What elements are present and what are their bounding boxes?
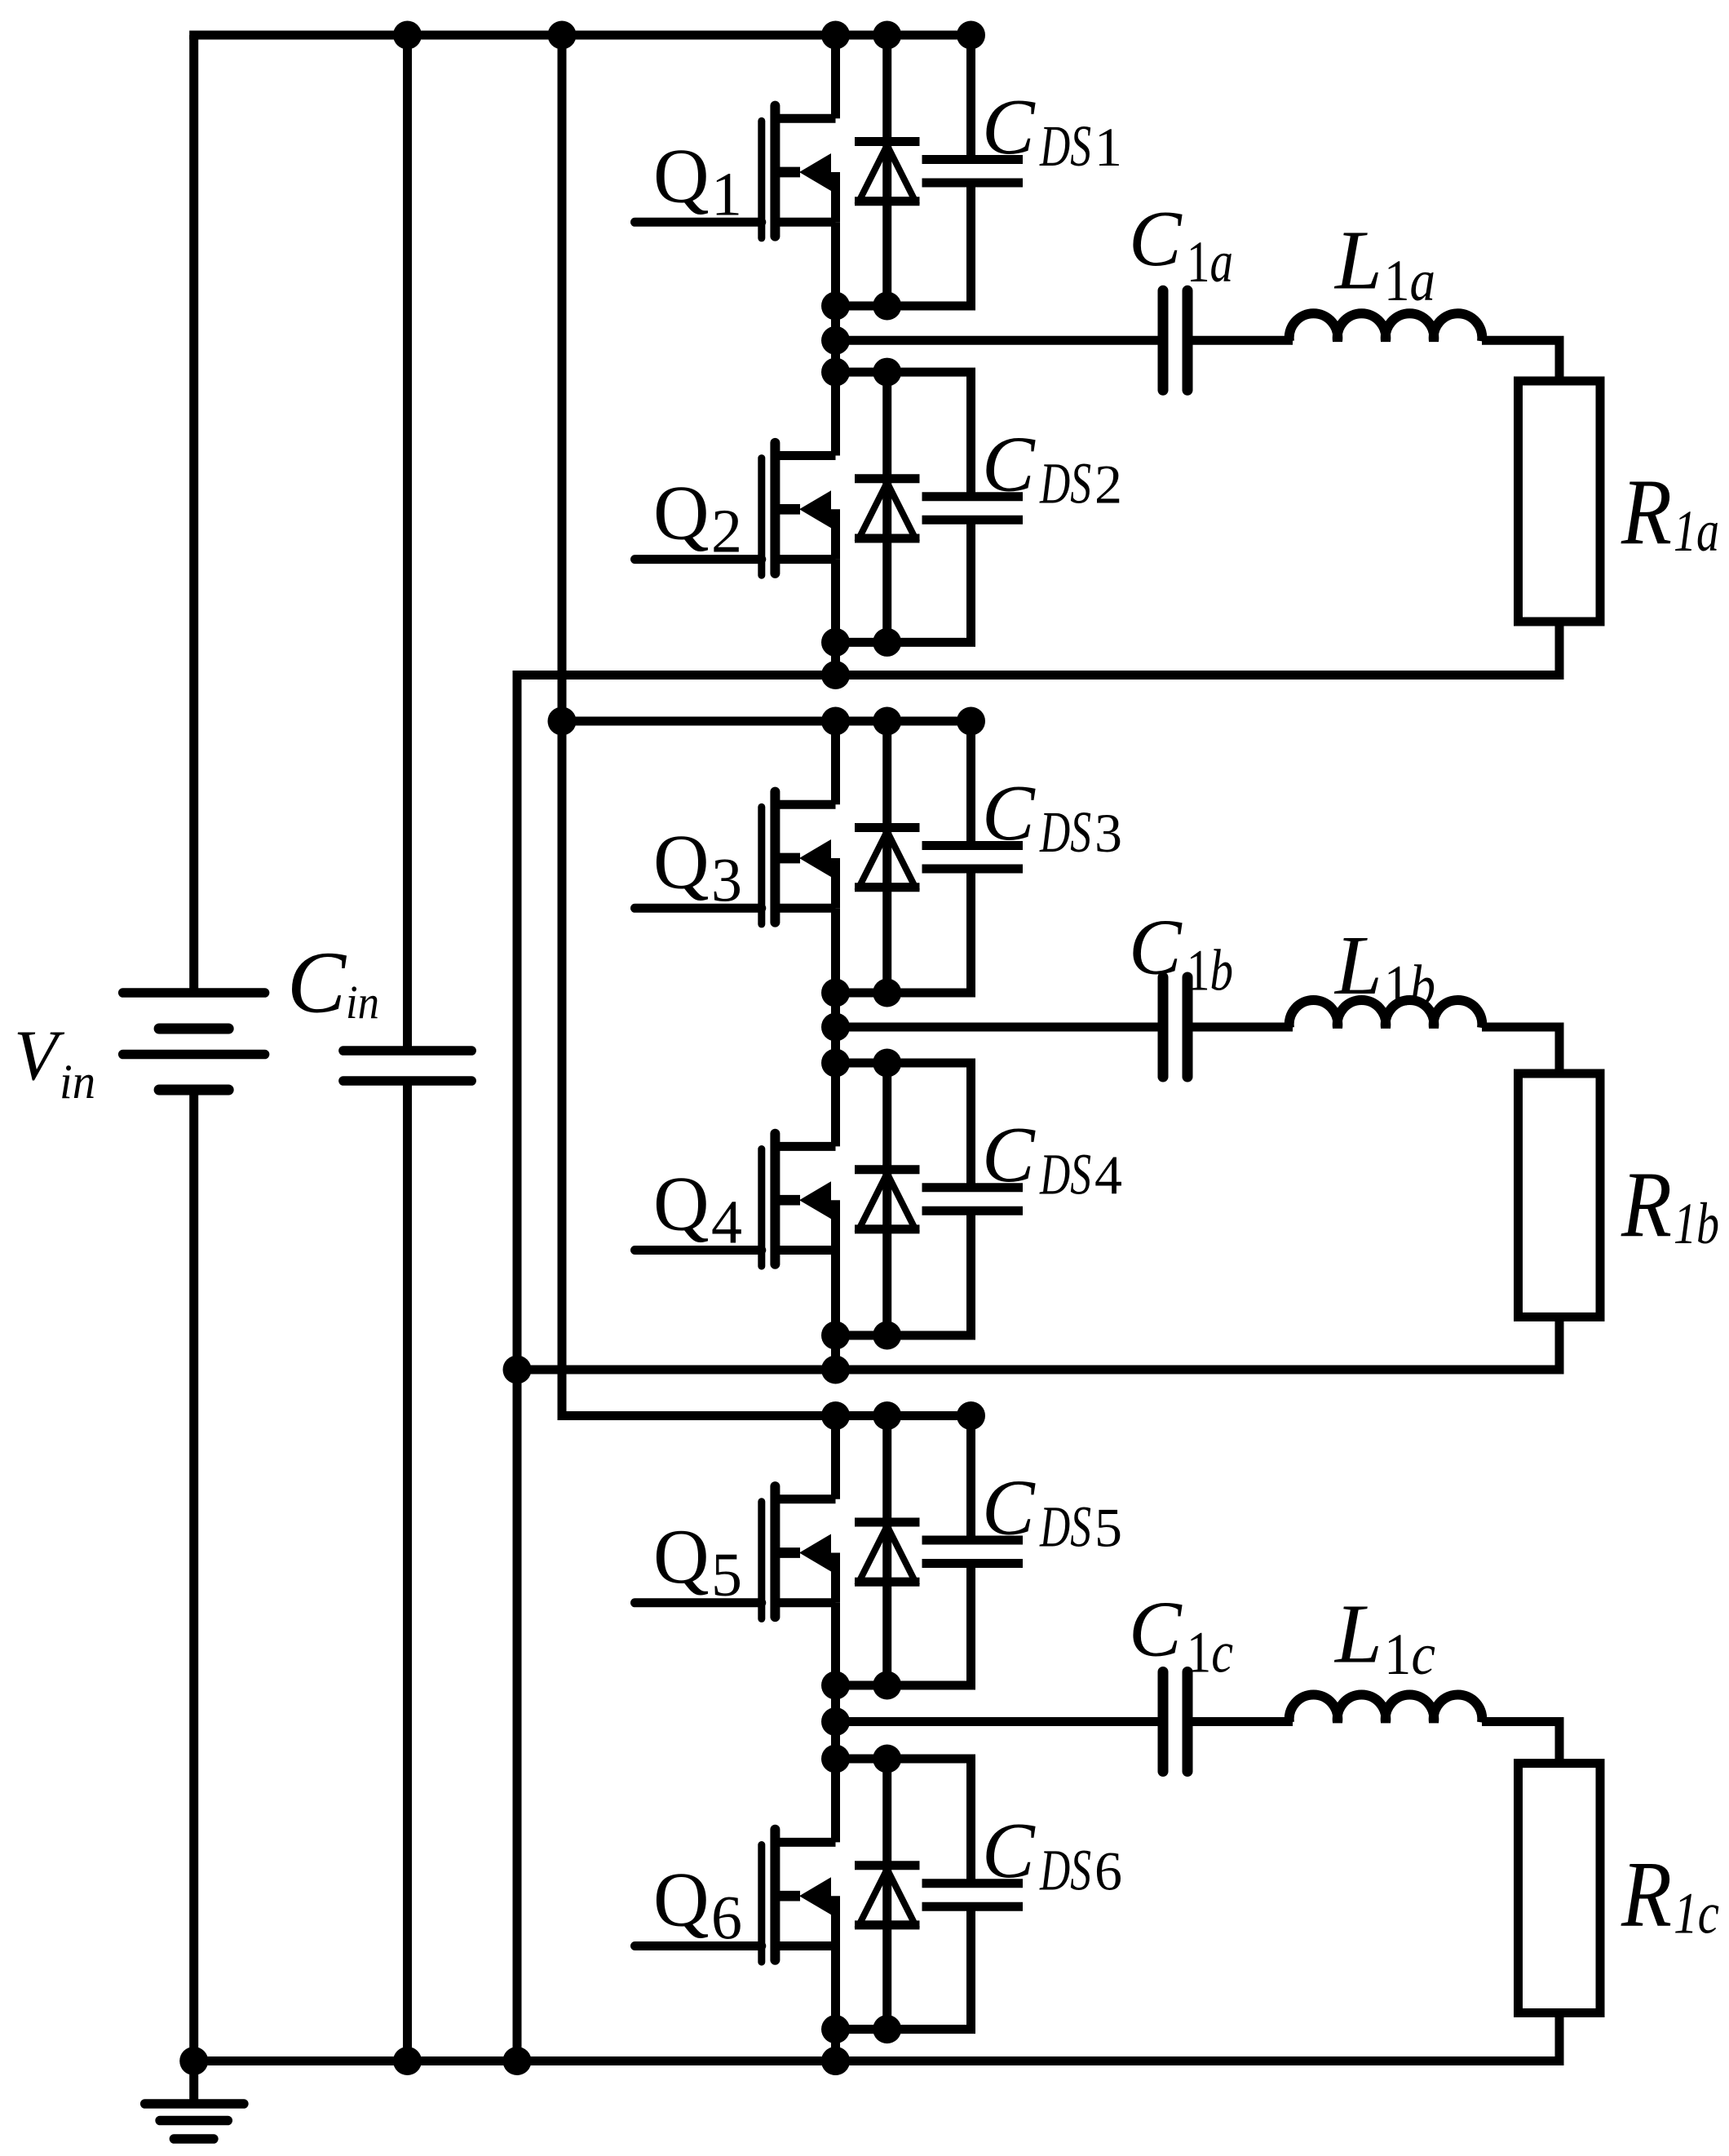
svg-text:2: 2 — [1094, 454, 1122, 516]
svg-text:C: C — [982, 420, 1036, 507]
svg-text:L: L — [1333, 214, 1382, 308]
svg-text:5: 5 — [1094, 1497, 1122, 1559]
svg-text:V: V — [14, 1016, 65, 1096]
svg-text:1: 1 — [711, 160, 742, 228]
svg-text:R: R — [1621, 1153, 1672, 1257]
svg-text:1: 1 — [1094, 116, 1122, 178]
svg-text:DS: DS — [1039, 451, 1091, 516]
svg-text:L: L — [1333, 1587, 1382, 1680]
svg-text:3: 3 — [711, 846, 742, 914]
svg-text:1c: 1c — [1384, 1622, 1435, 1687]
svg-text:Q: Q — [653, 1513, 710, 1600]
svg-text:5: 5 — [711, 1541, 742, 1609]
svg-text:1b: 1b — [1384, 954, 1435, 1019]
svg-text:3: 3 — [1094, 802, 1122, 864]
svg-text:1c: 1c — [1187, 1620, 1233, 1685]
svg-text:Q: Q — [653, 470, 710, 556]
svg-text:1a: 1a — [1187, 229, 1233, 294]
svg-text:6: 6 — [1094, 1839, 1122, 1901]
svg-text:1a: 1a — [1384, 248, 1435, 313]
svg-text:DS: DS — [1039, 113, 1091, 179]
svg-text:R: R — [1621, 1843, 1672, 1947]
svg-text:1a: 1a — [1674, 498, 1719, 564]
svg-text:2: 2 — [711, 498, 742, 566]
svg-text:Q: Q — [653, 1161, 710, 1247]
svg-text:C: C — [982, 1111, 1036, 1198]
svg-text:DS: DS — [1039, 1494, 1091, 1560]
svg-text:Q: Q — [653, 1857, 710, 1943]
svg-text:C: C — [982, 83, 1036, 170]
svg-text:C: C — [1129, 904, 1183, 991]
svg-text:C: C — [982, 1807, 1036, 1894]
svg-text:L: L — [1333, 919, 1382, 1012]
svg-text:DS: DS — [1039, 799, 1091, 865]
svg-text:Q: Q — [653, 132, 710, 219]
svg-text:DS: DS — [1039, 1141, 1091, 1206]
svg-text:C: C — [982, 769, 1036, 857]
svg-text:DS: DS — [1039, 1837, 1091, 1902]
svg-text:Q: Q — [653, 818, 710, 905]
svg-text:1b: 1b — [1187, 938, 1233, 1003]
svg-text:C: C — [1129, 195, 1183, 282]
svg-text:in: in — [60, 1055, 95, 1109]
svg-text:1b: 1b — [1674, 1191, 1719, 1256]
svg-text:C: C — [982, 1464, 1036, 1552]
svg-text:4: 4 — [1094, 1144, 1122, 1206]
svg-text:4: 4 — [711, 1189, 742, 1257]
svg-text:6: 6 — [711, 1884, 742, 1953]
svg-text:C: C — [287, 935, 347, 1032]
svg-text:1c: 1c — [1674, 1881, 1719, 1946]
svg-text:R: R — [1621, 460, 1672, 564]
svg-text:in: in — [346, 976, 379, 1029]
svg-text:C: C — [1129, 1586, 1183, 1673]
